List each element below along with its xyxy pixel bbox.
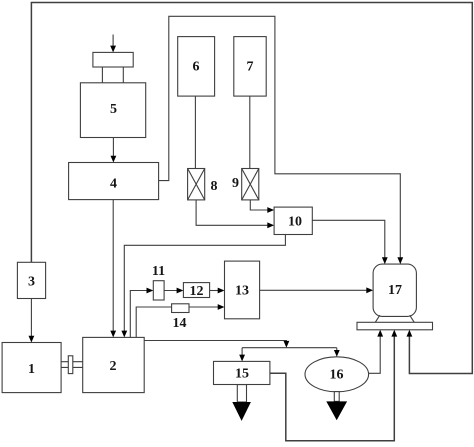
wire box2 to junction of 15/16 bbox=[144, 341, 286, 343]
arrowhead into tank17 top right bbox=[397, 257, 403, 264]
svg-text:3: 3 bbox=[28, 275, 35, 290]
svg-text:1: 1 bbox=[28, 362, 35, 377]
svg-text:6: 6 bbox=[193, 60, 200, 75]
box 1 bbox=[2, 343, 61, 393]
wire box7 to valve9 bbox=[249, 96, 251, 168]
wire box13 to tank17 left bbox=[260, 289, 371, 291]
arrowhead onto junction line bbox=[284, 341, 290, 348]
wire ellipse16 right to plate left arrow bbox=[369, 332, 381, 374]
valve 8 bbox=[188, 169, 205, 200]
box 3 bbox=[17, 262, 45, 298]
arrowhead into box2 from box4 bbox=[110, 331, 116, 338]
arrowhead up into plate from ellipse line bbox=[377, 330, 383, 337]
box 15 bbox=[214, 361, 270, 384]
wire box15 right to plate middle arrow bbox=[270, 332, 394, 441]
svg-text:16: 16 bbox=[330, 368, 344, 383]
svg-text:12: 12 bbox=[190, 284, 204, 299]
thick arrow triangle below box15 bbox=[232, 402, 251, 421]
thick arrow below box 15 stem bbox=[237, 385, 246, 402]
svg-text:10: 10 bbox=[288, 215, 302, 230]
arrowhead into box13 from 12 bbox=[218, 288, 225, 294]
svg-text:5: 5 bbox=[110, 102, 117, 117]
box 4 bbox=[69, 163, 159, 200]
box 5 bbox=[80, 83, 145, 138]
thick arrow below ellipse 16 stem bbox=[334, 392, 339, 402]
arrowhead up into plate from box15 line bbox=[391, 330, 397, 337]
arrowhead into tank17 left bbox=[366, 287, 373, 293]
svg-text:13: 13 bbox=[235, 284, 249, 299]
ellipse 16 bbox=[305, 357, 369, 392]
wire outer loop top/right bbox=[31, 3, 472, 374]
wire feed arrow into hopper bbox=[112, 35, 114, 51]
box 7 bbox=[234, 37, 266, 97]
wire box11 to box12 bbox=[164, 290, 181, 292]
wire junction line feeding 15 and 16 bbox=[242, 347, 337, 349]
arrowhead into tank17 top left bbox=[382, 257, 388, 264]
wire box10 loop to box2 bbox=[124, 235, 285, 336]
arrowhead up into plate from outer loop bbox=[407, 330, 413, 337]
wire box3 to box1 arrow bbox=[30, 299, 32, 341]
base plate bbox=[357, 322, 433, 330]
hopper top box bbox=[93, 52, 133, 67]
coupling shaft bbox=[61, 361, 83, 363]
svg-text:11: 11 bbox=[152, 264, 165, 279]
arrowhead into box12 bbox=[177, 288, 184, 294]
box 6 bbox=[178, 37, 215, 97]
svg-text:7: 7 bbox=[247, 60, 254, 75]
arrowhead into box1 bbox=[29, 336, 35, 343]
arrowhead into box4 bbox=[111, 156, 117, 163]
box 10 bbox=[274, 207, 312, 234]
coupling disc bbox=[68, 356, 73, 374]
wire box2 to box11 bbox=[130, 291, 151, 338]
wire box2 to box14 bbox=[136, 307, 171, 337]
wire box12 to box13 bbox=[210, 290, 222, 292]
wire box4 to box2 bbox=[112, 200, 114, 336]
arrowhead into box15 top bbox=[239, 355, 245, 362]
wire box10 to tank17 top bbox=[312, 220, 385, 262]
svg-text:9: 9 bbox=[232, 176, 239, 191]
arrowhead into box10 upper bbox=[267, 207, 274, 213]
tank skirt bbox=[375, 315, 380, 322]
box 2 bbox=[83, 337, 145, 392]
tank 17 bbox=[373, 264, 416, 316]
wire box5 to box4 bbox=[112, 138, 114, 161]
hopper neck bbox=[101, 67, 103, 83]
box 14 bbox=[172, 304, 189, 313]
svg-text:14: 14 bbox=[173, 316, 187, 331]
box 13 bbox=[225, 261, 260, 319]
wire valve8 to box10 bbox=[196, 200, 272, 225]
arrowhead into ellipse16 top bbox=[334, 350, 340, 357]
arrowhead into box13 from 14 bbox=[218, 304, 225, 310]
arrowhead into box11 bbox=[147, 288, 154, 294]
arrowhead into box2 from loop bbox=[121, 331, 127, 338]
box 12 bbox=[183, 283, 209, 298]
arrowhead into box10 lower bbox=[267, 222, 274, 228]
thick arrow triangle below ellipse16 bbox=[326, 401, 347, 420]
svg-text:15: 15 bbox=[235, 367, 249, 382]
svg-text:4: 4 bbox=[110, 177, 117, 192]
svg-text:8: 8 bbox=[211, 179, 218, 194]
wire box14 to box13 bbox=[189, 306, 222, 308]
wire valve9 to box10 bbox=[250, 200, 272, 210]
wire box6 to valve8 bbox=[194, 96, 196, 168]
svg-text:17: 17 bbox=[388, 283, 402, 298]
arrowhead into hopper bbox=[110, 46, 116, 53]
svg-text:2: 2 bbox=[110, 359, 117, 374]
valve 9 bbox=[242, 169, 259, 200]
wire container around 6,7 into box4 and to tank 17 bbox=[159, 16, 401, 262]
box 11 bbox=[153, 281, 164, 300]
